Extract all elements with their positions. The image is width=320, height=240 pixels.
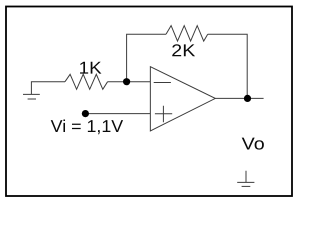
svg-text:Vo: Vo bbox=[242, 133, 265, 153]
svg-text:1K: 1K bbox=[79, 58, 103, 78]
svg-text:2K: 2K bbox=[171, 40, 196, 60]
svg-text:Vi = 1,1V: Vi = 1,1V bbox=[51, 116, 124, 136]
